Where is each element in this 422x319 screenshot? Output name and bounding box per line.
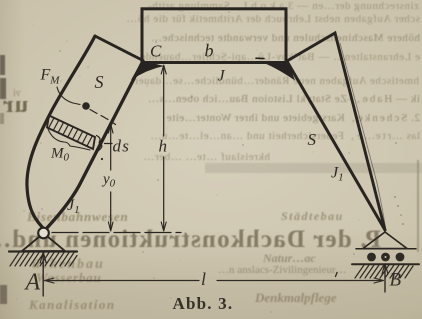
support B: rollers xyxy=(367,253,376,262)
reaction arrow B xyxy=(382,264,388,292)
right strut outer chord (junction - peak - support) xyxy=(287,33,385,230)
svg-text:J1: J1 xyxy=(331,165,344,184)
support B: ground line xyxy=(352,263,419,265)
support A: triangle xyxy=(22,237,65,252)
right strut inner chord S xyxy=(288,63,385,230)
svg-text:Abb. 3.: Abb. 3. xyxy=(173,294,234,313)
svg-text:FM: FM xyxy=(40,67,61,87)
small brace before ds xyxy=(97,136,102,151)
labels (hand-lettered italic) xyxy=(24,41,402,314)
svg-text:h: h xyxy=(159,137,168,156)
dotted marks near right strut xyxy=(394,196,404,225)
svg-text:b: b xyxy=(205,41,214,61)
support A: ground line xyxy=(9,250,77,252)
leader from F_M to dot xyxy=(57,87,80,105)
big mirrored headline Dachkonstruktionen der Pr... xyxy=(0,226,381,254)
svg-text:S: S xyxy=(95,72,104,92)
bottom-right list show-through xyxy=(281,209,344,224)
moment point (dot) xyxy=(82,102,90,110)
faint page-gutter line right xyxy=(417,160,419,252)
support B: base plate line xyxy=(356,248,416,250)
dashed leader dot to ds xyxy=(90,110,116,125)
dimension h vertical line with arrows xyxy=(161,65,166,231)
top beam member b (rectangle C..b) xyxy=(142,9,286,63)
gusset fillet at right beam end xyxy=(259,61,295,81)
speck left of B support xyxy=(336,273,338,277)
reaction arrow A xyxy=(40,252,46,296)
dashed base line through supports xyxy=(52,232,181,234)
big mirrored margin text ur xyxy=(2,92,28,119)
left member left (outer) curved edge xyxy=(27,36,95,230)
svg-text:M0: M0 xyxy=(50,146,70,164)
left margin dark marks xyxy=(0,55,5,75)
svg-text:l: l xyxy=(201,269,206,289)
tick mark above beam bottom near right gusset xyxy=(256,57,264,59)
gusset fillet at C xyxy=(131,61,164,81)
bottom-left list show-through xyxy=(27,209,129,225)
svg-text:S: S xyxy=(308,130,317,149)
support A: ground hatching xyxy=(10,253,77,267)
svg-text:C: C xyxy=(150,42,162,61)
left member top edge (peak to corner C) xyxy=(95,36,143,61)
svg-text:ds: ds xyxy=(113,137,131,156)
speck near ds xyxy=(101,158,103,160)
dimension l horizontal line with arrows xyxy=(45,278,384,283)
wavy leader under band (M0 brace) xyxy=(48,129,90,150)
dimension y0 vertical line with arrows xyxy=(108,124,113,231)
svg-text:J1: J1 xyxy=(67,197,80,216)
svg-text:B: B xyxy=(390,270,402,291)
cross-section hatched band on left member xyxy=(47,116,95,150)
svg-text:A: A xyxy=(24,270,41,296)
support B: ground hatching xyxy=(355,265,413,278)
left member right (inner) edge xyxy=(46,61,143,229)
faint double line along outer chord xyxy=(340,43,386,228)
svg-text:J: J xyxy=(218,68,226,85)
faint band right half xyxy=(205,163,422,173)
svg-text:y0: y0 xyxy=(101,172,116,190)
support A: pin circle xyxy=(38,228,49,239)
support B: triangle xyxy=(363,232,407,249)
